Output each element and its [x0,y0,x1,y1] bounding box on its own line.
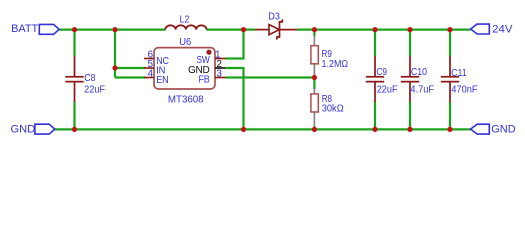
junction C9 bottom [372,127,377,132]
svg-text:30kΩ: 30kΩ [322,104,344,115]
U6 pin-1 marker dot [206,50,211,55]
svg-text:C10: C10 [411,67,428,78]
junction C9 top [372,27,377,32]
svg-text:22uF: 22uF [377,84,398,95]
wire top rail D3 to 24V port [297,29,471,31]
wire R8 top [313,78,315,90]
svg-text:C9: C9 [376,67,387,78]
junction C11 top [447,27,452,32]
wire C10 bottom [409,102,411,130]
svg-text:4: 4 [148,68,154,79]
IC U6 MT3608 body [154,37,215,106]
junction SW node top [241,27,246,32]
svg-text:D3: D3 [268,11,280,22]
wire top rail BATT to L2 [59,29,166,31]
svg-text:1.2MΩ: 1.2MΩ [322,59,349,70]
wire bottom GND rail [55,128,471,130]
wire C8 top [73,30,75,57]
wire C11 bottom [449,102,451,130]
capacitor C11 [441,56,478,102]
resistor R8 [311,89,344,127]
resistor R9 [311,36,349,76]
wire to IN pin [115,67,145,69]
port GND left [11,124,55,136]
svg-text:FB: FB [199,75,211,86]
svg-text:L2: L2 [180,15,190,26]
port BATT [11,23,59,35]
wire R8 bottom [313,126,315,129]
svg-text:U6: U6 [179,37,192,48]
wire C8 bottom [73,102,75,130]
svg-text:24V: 24V [492,23,513,35]
svg-text:22uF: 22uF [84,84,105,95]
junction IN branch top [112,27,117,32]
U6 pin 4 EN [144,68,169,86]
wire to EN pin [115,76,145,78]
svg-text:MT3608: MT3608 [168,95,204,106]
svg-text:C11: C11 [451,68,467,79]
svg-text:4.7uF: 4.7uF [410,85,434,96]
port 24V [471,23,514,35]
wire GND pin to bottom rail [226,68,244,129]
junction C8 bottom [72,127,77,132]
junction R8 bottom [312,127,317,132]
svg-text:BATT: BATT [11,23,39,35]
capacitor C10 [401,56,434,102]
wire C10 top [409,30,411,57]
svg-text:470nF: 470nF [451,85,477,96]
junction C11 bottom [447,127,452,132]
inductor L2 [165,15,206,30]
wire R9 bottom [313,75,315,78]
junction GND pin bottom [241,127,246,132]
U6 pin 6 NC [144,49,169,67]
junction BATT/C8 top [72,27,77,32]
wire IN/EN branch vertical [114,30,116,78]
U6 pin 1 SW [197,49,226,66]
junction FB divider node [312,75,317,80]
junction C10 top [407,27,412,32]
svg-text:EN: EN [156,75,168,86]
junction R9 top [312,27,317,32]
svg-text:3: 3 [216,68,222,79]
junction IN pin node [112,65,117,70]
junction C10 bottom [407,127,412,132]
U6 pin 5 IN [144,59,165,77]
U6 pin 3 FB [199,68,226,85]
U6 pin 2 GND [188,59,226,76]
capacitor C9 [366,56,398,102]
wire R9 top [313,30,315,37]
svg-text:GND: GND [491,124,516,136]
diode D3 (Schottky) [255,11,297,39]
svg-text:C8: C8 [84,73,96,84]
wire FB pin to divider [226,76,315,78]
wire C9 bottom [374,102,376,130]
port GND right [471,124,516,136]
capacitor C8 [65,56,105,102]
wire SW pin to top rail [226,30,244,59]
svg-text:GND: GND [11,124,36,136]
wire C9 top [374,30,376,57]
wire C11 top [449,30,451,57]
wire top rail L2 to D3 [206,29,255,31]
